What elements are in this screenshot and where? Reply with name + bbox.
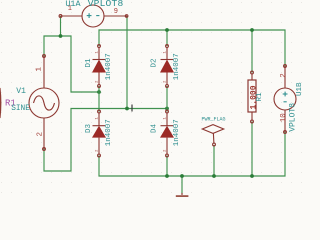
junction bus / PWR_FLAG xyxy=(212,174,216,178)
junction bus / D4 xyxy=(165,174,169,178)
U1A minus mark xyxy=(96,15,99,17)
svg-text:PWR_FLAG: PWR_FLAG xyxy=(202,117,226,123)
svg-text:U1A: U1A xyxy=(65,0,81,9)
wire net A: V1 pin1 up, across, down to D1/D3 midpoint xyxy=(44,36,99,92)
svg-text:10: 10 xyxy=(280,113,288,123)
wire D4 anode down to bus xyxy=(166,156,168,177)
svg-text:1: 1 xyxy=(36,67,44,72)
U1A plus mark xyxy=(87,13,92,18)
junction at node A / U1A tap xyxy=(59,34,63,38)
U1B minus mark xyxy=(284,101,287,103)
probe U1B xyxy=(274,65,296,134)
diode D2 xyxy=(160,45,174,88)
no-connect tick on net B xyxy=(131,105,132,112)
junction net B / U1A drop xyxy=(125,107,129,111)
junction bus / R1 bottom xyxy=(250,174,254,178)
svg-text:D4: D4 xyxy=(151,123,159,133)
svg-text:U1B: U1B xyxy=(296,82,304,96)
wire D2 anode to D4 cathode xyxy=(166,86,168,112)
wire from U1A pin1 down to net A xyxy=(60,16,62,36)
svg-text:SINE: SINE xyxy=(11,105,30,113)
wire R1 bottom to bus xyxy=(251,122,253,177)
svg-text:1n4007: 1n4007 xyxy=(173,119,181,146)
svg-text:D1: D1 xyxy=(85,58,93,68)
voltage source V1 xyxy=(29,55,59,151)
svg-text:1n4007: 1n4007 xyxy=(105,53,113,80)
diode D3 xyxy=(92,110,106,157)
svg-text:V1: V1 xyxy=(16,87,26,96)
svg-text:2: 2 xyxy=(36,132,44,137)
wire D2 cathode up to bus xyxy=(166,30,168,46)
diode D4 xyxy=(160,110,174,157)
svg-text:D3: D3 xyxy=(85,123,93,133)
svg-text:2: 2 xyxy=(280,73,288,78)
svg-text:D2: D2 xyxy=(151,58,159,67)
clipped component at left edge xyxy=(0,88,2,118)
junction net B / D2-D4 column xyxy=(165,107,169,111)
svg-text:1n4007: 1n4007 xyxy=(173,53,181,80)
wire PWR_FLAG stem xyxy=(213,145,215,176)
wire bottom ground bus xyxy=(99,132,285,176)
power flag PWR_FLAG xyxy=(202,125,223,146)
wire from U1A pin9 corner down to net B xyxy=(126,16,128,109)
junction at node A / D1-D3 column xyxy=(97,90,101,94)
junction bus / R1 xyxy=(250,28,254,32)
svg-text:1n4007: 1n4007 xyxy=(105,119,113,146)
wire net B: V1 pin2 down, across, up, to D2/D4 midpoint xyxy=(44,109,167,172)
junction bus / ground xyxy=(180,174,184,178)
svg-text:R1: R1 xyxy=(256,92,264,102)
wire R1 top to bus xyxy=(251,30,253,73)
junction bus / D2 xyxy=(165,28,169,32)
svg-text:VPLOT8: VPLOT8 xyxy=(288,103,297,132)
diode D1 xyxy=(92,45,106,88)
wire D1 anode to D3 cathode xyxy=(98,86,100,112)
U1B plus mark xyxy=(283,92,288,97)
wire top positive bus xyxy=(99,30,285,66)
wire ground stem xyxy=(181,176,183,194)
ground symbol xyxy=(181,193,183,195)
probe U1A xyxy=(59,5,128,27)
resistor R1 xyxy=(248,71,256,123)
svg-text:VPLOT8: VPLOT8 xyxy=(88,0,124,9)
